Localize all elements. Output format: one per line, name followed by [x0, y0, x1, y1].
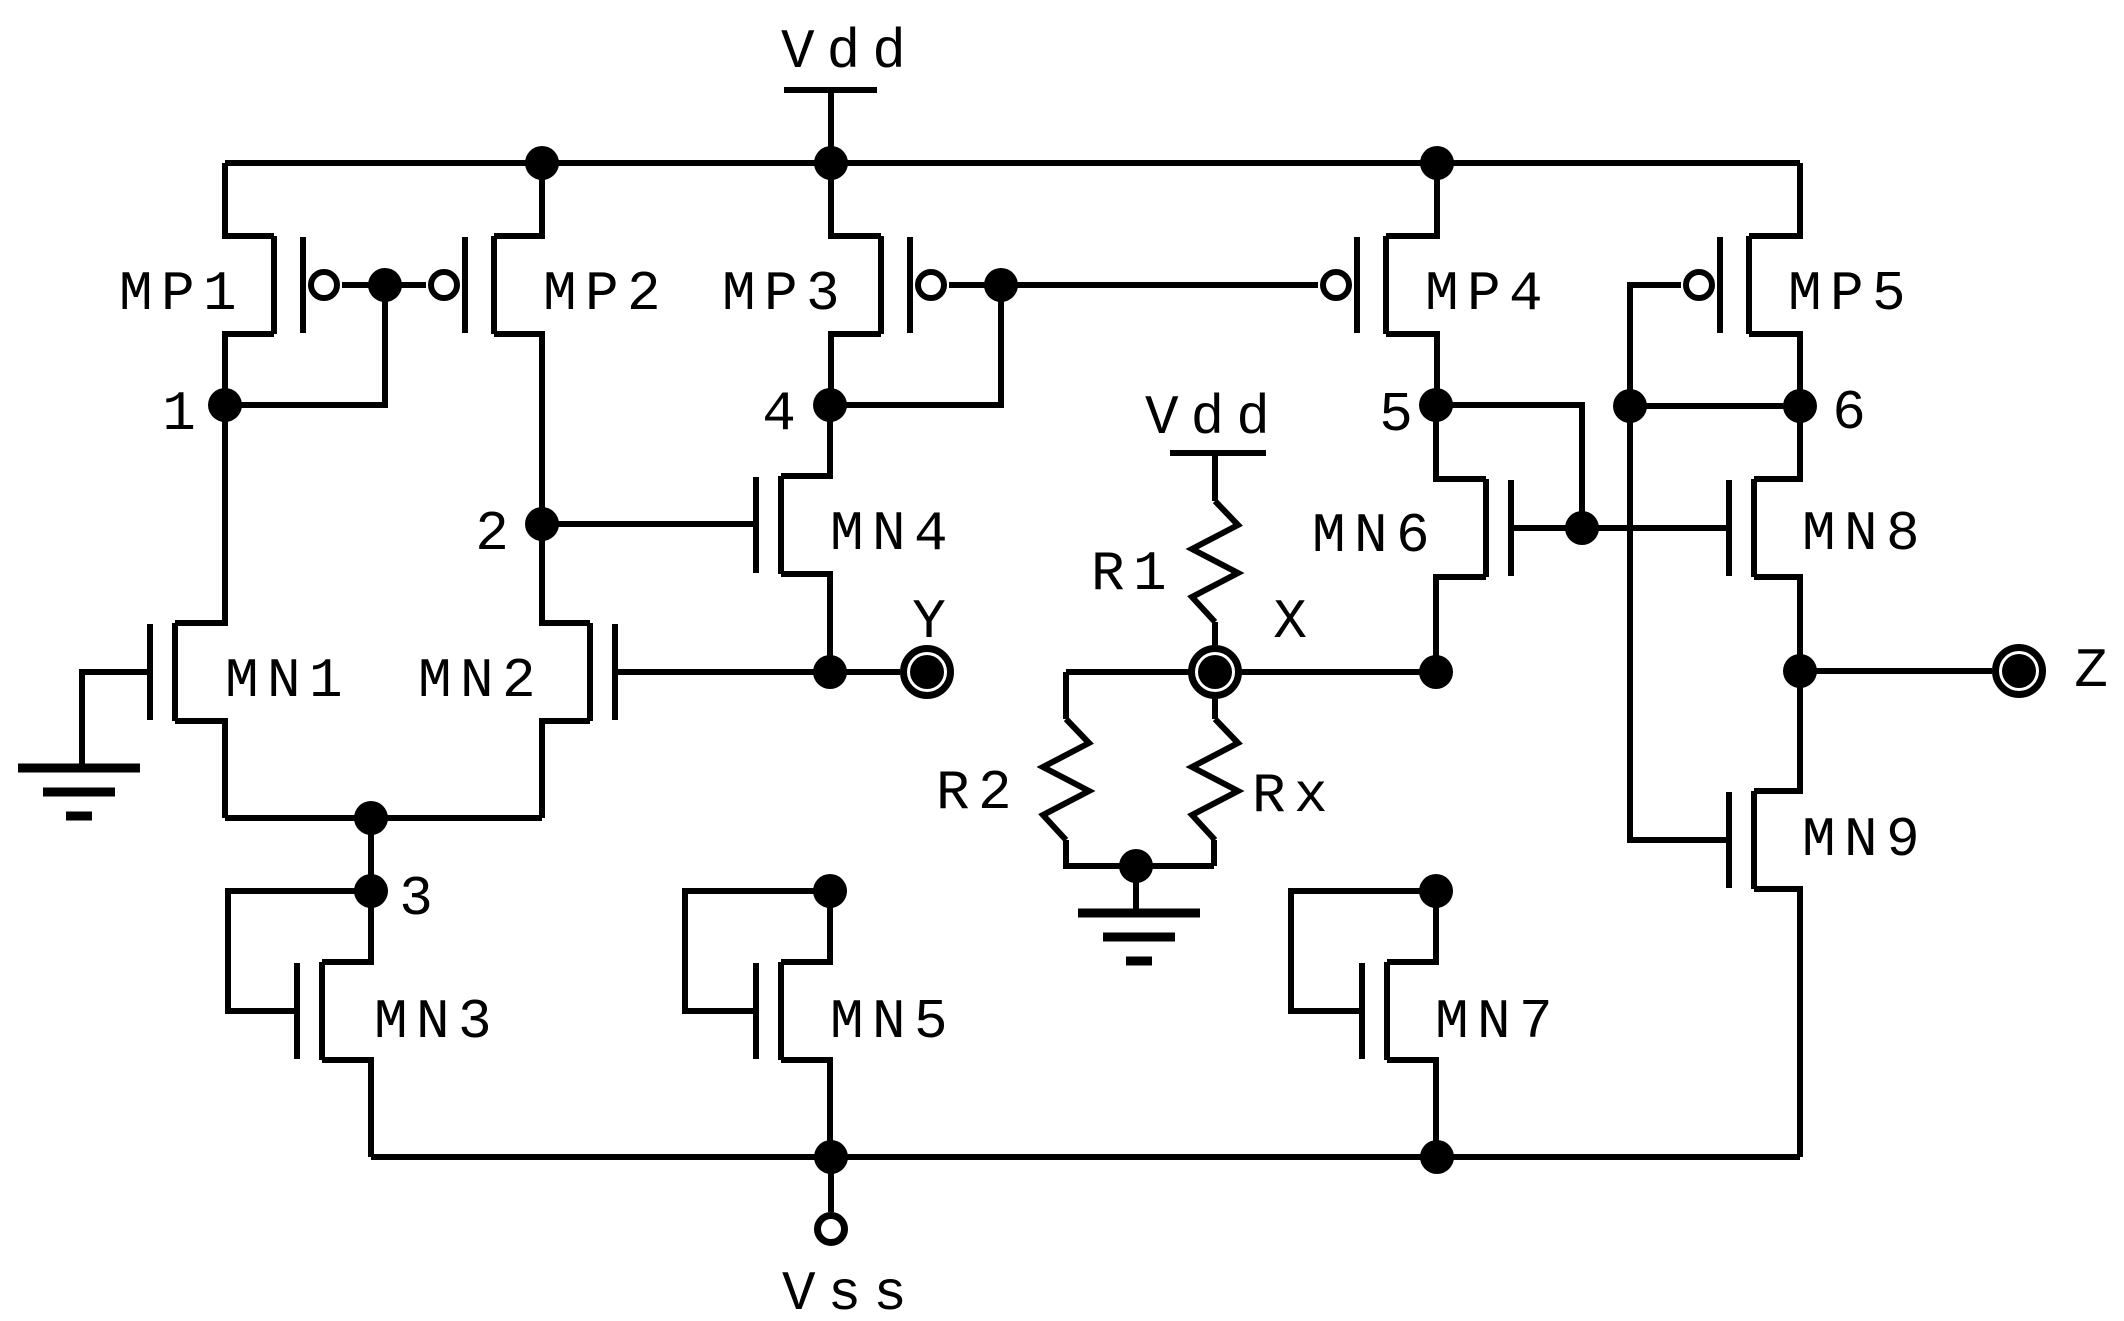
wire node 5 to gates	[1436, 405, 1582, 528]
wire X horizontal	[1066, 669, 1436, 675]
transistor MN6	[1436, 405, 1511, 672]
port Y	[904, 649, 951, 696]
transistor MP4	[1323, 163, 1437, 405]
power Vdd symbol (top)	[784, 87, 877, 93]
junction MP1-MP2 gate	[368, 268, 402, 302]
wire MN2 gate	[617, 669, 830, 675]
svg-text:MN9: MN9	[1802, 808, 1928, 872]
transistor MN4	[756, 405, 830, 672]
transistor MN5	[756, 891, 830, 1157]
junction ground node	[1119, 849, 1153, 883]
junction rail MP2	[525, 146, 559, 180]
junction rail MN5	[814, 1140, 848, 1174]
wire to port Z	[1800, 668, 1992, 674]
transistor MP3	[831, 163, 944, 405]
wire Vdd top rail	[225, 160, 1800, 166]
svg-text:3: 3	[399, 867, 433, 931]
junction rail MP3	[814, 146, 848, 180]
svg-text:Vdd: Vdd	[781, 20, 918, 84]
wire R1 to X	[1212, 622, 1218, 719]
svg-text:MP5: MP5	[1788, 262, 1914, 326]
wire ground stem	[1133, 866, 1139, 909]
transistor MN9	[1729, 671, 1800, 1157]
svg-text:Rx: Rx	[1252, 764, 1336, 828]
ground (MN1 gate)	[18, 764, 140, 773]
wire MN5 diode	[685, 891, 830, 1011]
wire Vss stub	[828, 1157, 834, 1212]
junction MP5 gate node	[1613, 389, 1647, 423]
svg-text:Vss: Vss	[782, 1262, 919, 1321]
svg-text:MN2: MN2	[418, 649, 544, 713]
resistor Rx	[1192, 719, 1238, 840]
wire MN1-MN2 sources	[225, 815, 542, 821]
svg-text:Z: Z	[2074, 639, 2108, 703]
node 6	[1783, 389, 1817, 423]
wire gate to node 4	[830, 285, 1001, 405]
junction MN7 drain	[1419, 874, 1453, 908]
wire MN3 diode	[228, 891, 371, 1011]
node 3	[354, 874, 388, 908]
svg-text:1: 1	[162, 382, 196, 446]
svg-text:X: X	[1273, 590, 1307, 654]
wire node 2 to MN4 gate	[542, 521, 756, 527]
wire MN1 gate to ground	[82, 672, 150, 768]
power Vdd symbol (R1)	[1170, 450, 1266, 456]
svg-text:R2: R2	[936, 761, 1020, 825]
ground (R2 Rx)	[1078, 909, 1200, 918]
wire MN7 diode	[1291, 891, 1436, 1011]
transistor MN3	[297, 891, 371, 1157]
wire resistor bottoms	[1066, 840, 1214, 866]
wire MP3-MP4 gate	[949, 282, 1318, 288]
wire to node 3	[368, 818, 374, 891]
wire to port Y	[830, 669, 900, 675]
junction rail MP4	[1420, 146, 1454, 180]
svg-text:MN8: MN8	[1802, 502, 1928, 566]
transistor MP2	[431, 163, 542, 524]
port Z	[1996, 648, 2043, 695]
wire MN6-MN8 gate	[1511, 525, 1729, 531]
node 2	[525, 507, 559, 541]
svg-text:MP1: MP1	[119, 262, 245, 326]
transistor MN7	[1362, 891, 1436, 1157]
port Vss	[818, 1216, 845, 1243]
junction sources	[354, 801, 388, 835]
svg-text:MN5: MN5	[830, 990, 956, 1054]
transistor MN1	[150, 405, 225, 818]
junction X right	[1419, 655, 1453, 689]
wire to MN9 gate	[1630, 406, 1729, 840]
svg-text:MP3: MP3	[722, 262, 848, 326]
svg-text:6: 6	[1832, 381, 1866, 445]
svg-text:MN7: MN7	[1435, 990, 1561, 1054]
wire MP5 gate	[1630, 285, 1681, 406]
svg-text:5: 5	[1379, 383, 1413, 447]
port X	[1192, 649, 1239, 696]
junction rail MN7	[1420, 1140, 1454, 1174]
svg-text:MN3: MN3	[374, 990, 500, 1054]
node 4	[813, 388, 847, 422]
junction MN6-MN8 gate	[1565, 511, 1599, 545]
svg-text:MP4: MP4	[1425, 262, 1551, 326]
transistor MN8	[1729, 406, 1800, 671]
svg-text:Y: Y	[912, 590, 946, 654]
node 5	[1419, 388, 1453, 422]
svg-text:MN4: MN4	[830, 502, 956, 566]
wire R2 branch	[1063, 672, 1069, 719]
svg-text:2: 2	[475, 502, 509, 566]
svg-text:Vdd: Vdd	[1145, 386, 1282, 450]
transistor MP5	[1686, 163, 1800, 406]
transistor MN2	[542, 524, 615, 818]
wire MP1-MP2 gate	[342, 282, 426, 288]
wire Vss bottom rail	[371, 1154, 1800, 1160]
svg-text:4: 4	[762, 382, 796, 446]
svg-text:R1: R1	[1091, 542, 1175, 606]
junction Z	[1783, 654, 1817, 688]
svg-text:MP2: MP2	[543, 262, 669, 326]
svg-text:MN6: MN6	[1312, 504, 1438, 568]
junction MP3 gate	[984, 268, 1018, 302]
wire node 6 link	[1630, 403, 1800, 409]
transistor MP1	[225, 163, 337, 405]
wire gate to node 1	[225, 285, 385, 405]
resistor R1	[1192, 501, 1238, 622]
svg-text:MN1: MN1	[225, 649, 351, 713]
junction MN5 drain	[813, 874, 847, 908]
junction Y	[813, 655, 847, 689]
node 1	[208, 388, 242, 422]
resistor R2	[1043, 719, 1089, 840]
